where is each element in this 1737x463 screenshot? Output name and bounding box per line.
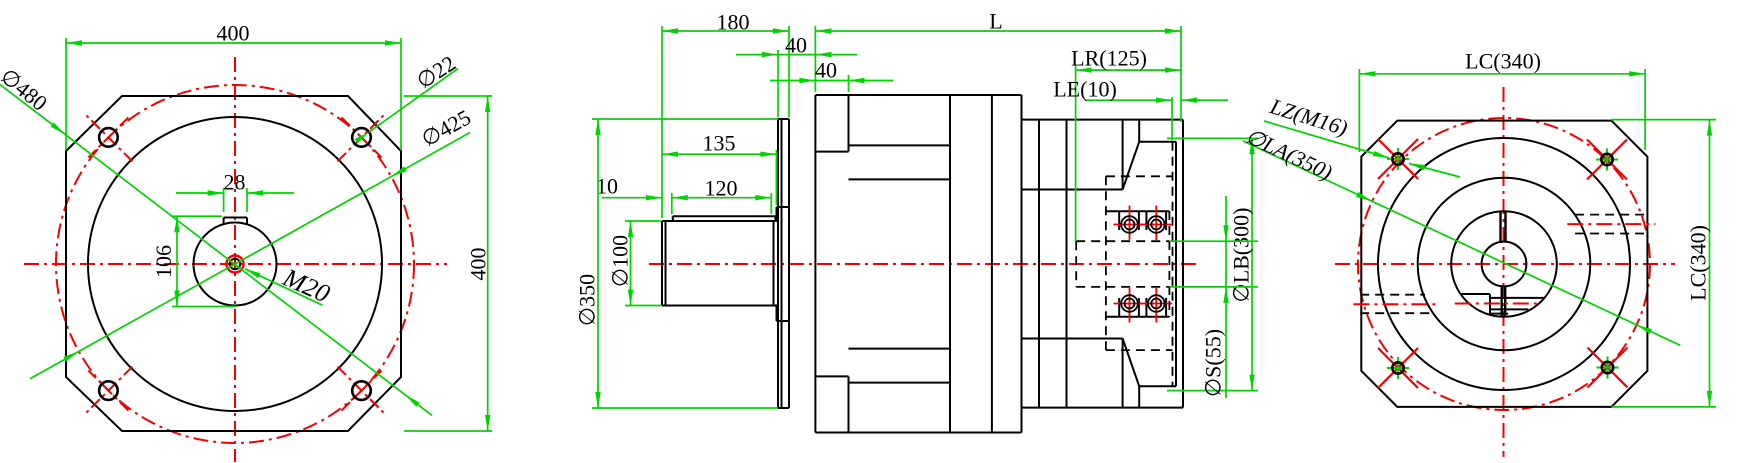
rear section verticals (1039, 120, 1067, 408)
dimension dia S(55) (1169, 196, 1258, 398)
rear corner tapped hole LZ #2 red cross (1587, 140, 1627, 180)
svg-text:LR(125): LR(125) (1071, 46, 1147, 71)
leader arrow at hole (1409, 164, 1460, 178)
right radial hole hidden lines (1575, 215, 1646, 234)
svg-text:40: 40 (815, 58, 837, 83)
rear corner tapped hole LZ #4 red cross (1588, 348, 1628, 388)
left view keyway 28mm (224, 218, 247, 225)
left view bore circle dia100 (194, 223, 277, 306)
dimension 28 keyway width (176, 170, 294, 213)
left view bolt circle dia425 (red dash-dot) (56, 85, 414, 443)
upper bolt hole 1 red cross (1114, 206, 1146, 241)
rear section inner lines (1022, 120, 1123, 408)
left view M20 tapped hole (227, 256, 244, 273)
svg-text:180: 180 (717, 10, 750, 35)
leader M20 center hole (245, 262, 334, 308)
svg-text:40: 40 (785, 33, 807, 58)
dimension dia350 (575, 119, 779, 408)
rear pocket hidden outline (1106, 176, 1173, 350)
dimension dia100 (608, 221, 662, 306)
rear view flange octagon LC340 (1361, 121, 1647, 407)
rear view hub circle (1451, 211, 1557, 317)
svg-text:M20: M20 (278, 262, 334, 308)
rear taper chamfer bottom (1123, 339, 1140, 387)
svg-text:∅S(55): ∅S(55) (1201, 329, 1226, 397)
rear register hidden line (1172, 142, 1174, 386)
upper bolt hole 2 (1148, 216, 1165, 233)
dimension LC(340) right (1611, 120, 1716, 407)
svg-text:10: 10 (596, 174, 618, 199)
dimension dia LA(350) diagonal (1242, 123, 1680, 345)
svg-text:∅100: ∅100 (608, 235, 633, 287)
left view corner hole dia22 #4 (352, 381, 371, 400)
dimension 400 top (66, 21, 401, 151)
upper bolt hole 2 red cross (1140, 206, 1172, 241)
svg-text:LE(10): LE(10) (1053, 77, 1117, 102)
lower bolt hole slots (1106, 298, 1169, 317)
left view corner hole dia22 #3 (99, 381, 118, 400)
dimension LC(340) top (1359, 49, 1645, 153)
dimension 40 step (770, 58, 893, 93)
lower bolt hole 1 (1121, 295, 1138, 312)
left view corner hole dia22 #2 (352, 128, 371, 147)
leader LZ(M16) (1264, 93, 1389, 158)
dimension 40 plate thickness (736, 33, 857, 118)
left view vertical centerline (234, 57, 236, 462)
rear view circle dia LB300 (1378, 138, 1630, 390)
rear corner tapped hole LZ #3 (1392, 362, 1403, 373)
leader dia22 hole (355, 50, 461, 143)
rear view bore circle dia S (1482, 242, 1527, 287)
dimension dia425 bolt circle (30, 104, 475, 378)
rear corner tapped hole LZ #3 red cross (1378, 348, 1418, 388)
clamp slit top (1501, 212, 1506, 242)
dimension 120 key length (672, 176, 772, 215)
left view corner hole dia22 #1 radial centerline (84, 113, 132, 161)
rear flange section outline (1022, 120, 1184, 408)
left view flange octagon 400x400 (66, 96, 401, 431)
rear flange ring face (1139, 120, 1176, 408)
svg-text:∅350: ∅350 (575, 274, 600, 326)
upper bolt hole slots (1106, 211, 1169, 230)
front section bottom step (815, 349, 950, 433)
svg-text:400: 400 (217, 21, 250, 46)
rear corner tapped hole LZ #2 green cross (1596, 149, 1618, 171)
svg-text:∅22: ∅22 (412, 50, 460, 93)
svg-text:∅LB(300): ∅LB(300) (1229, 208, 1254, 303)
rear corner tapped hole LZ #4 (1602, 362, 1613, 373)
dimension dia LB(300) (1167, 138, 1258, 390)
rear view bolt circle dia LA350 (red dash-dot) (1358, 118, 1650, 410)
output flange plate dia350 (778, 119, 789, 408)
left view horizontal centerline (24, 263, 447, 265)
svg-text:∅425: ∅425 (417, 104, 475, 151)
dimension 400 right (404, 96, 492, 431)
output shaft dia100 (662, 221, 778, 306)
svg-text:135: 135 (703, 131, 736, 156)
output bore dia S hidden outline (1076, 211, 1169, 317)
clamp slit bottom (1502, 287, 1506, 317)
svg-text:28: 28 (224, 170, 246, 195)
dimension LR(125) (1071, 46, 1181, 242)
front section top step (815, 95, 950, 179)
rear corner tapped hole LZ #3 green cross (1387, 357, 1409, 379)
gear housing front section (815, 95, 1021, 433)
upper bolt hole 1 (1121, 216, 1138, 233)
left view body circle dia350 (88, 117, 382, 411)
svg-text:400: 400 (466, 248, 491, 281)
dimension 10 (596, 174, 662, 201)
rear taper chamfer top (1123, 142, 1140, 190)
bore keyway detail (1461, 294, 1544, 314)
rear view vertical centerline (1503, 87, 1505, 457)
keyway red centerline (1455, 303, 1540, 305)
lower bolt hole 2 red cross (1140, 288, 1172, 323)
bearing hub ring (777, 207, 790, 321)
svg-text:LC(340): LC(340) (1686, 225, 1711, 301)
shaft key (673, 216, 776, 221)
left view corner hole dia22 #2 radial centerline (338, 113, 386, 161)
left radial hole hidden lines (1360, 295, 1431, 314)
rear corner tapped hole LZ #4 green cross (1597, 357, 1619, 379)
left view corner hole dia22 #3 radial centerline (84, 367, 132, 415)
rear corner tapped hole LZ #1 (1392, 153, 1403, 164)
dimension dia480 corner diagonal (0, 63, 432, 415)
lower bolt hole 2 (1148, 295, 1165, 312)
housing middle section lines (992, 95, 1022, 433)
rear view horizontal centerline (1335, 263, 1675, 265)
dimension 106 keyway height (151, 216, 236, 306)
dimension 180 (662, 10, 789, 219)
dimension L (815, 9, 1181, 123)
left view corner hole dia22 #1 (99, 128, 118, 147)
left radial hole centerline (1353, 303, 1438, 305)
svg-text:L: L (989, 9, 1002, 34)
left view corner hole dia22 #4 radial centerline (338, 367, 386, 415)
dimension 135 (662, 131, 776, 206)
lower bolt hole 1 red cross (1114, 288, 1146, 323)
rear corner tapped hole LZ #1 red cross (1378, 139, 1418, 179)
side view axis centerline (649, 263, 1196, 265)
rear view circle register (1418, 178, 1591, 351)
svg-text:∅480: ∅480 (0, 63, 52, 115)
dimension LE(10) (1053, 77, 1228, 141)
svg-text:106: 106 (151, 245, 176, 278)
rear corner tapped hole LZ #2 (1601, 154, 1612, 165)
svg-text:LC(340): LC(340) (1465, 49, 1541, 74)
right radial hole centerline (1567, 223, 1655, 225)
rear corner tapped hole LZ #1 green cross (1387, 148, 1409, 170)
svg-text:120: 120 (705, 176, 738, 201)
